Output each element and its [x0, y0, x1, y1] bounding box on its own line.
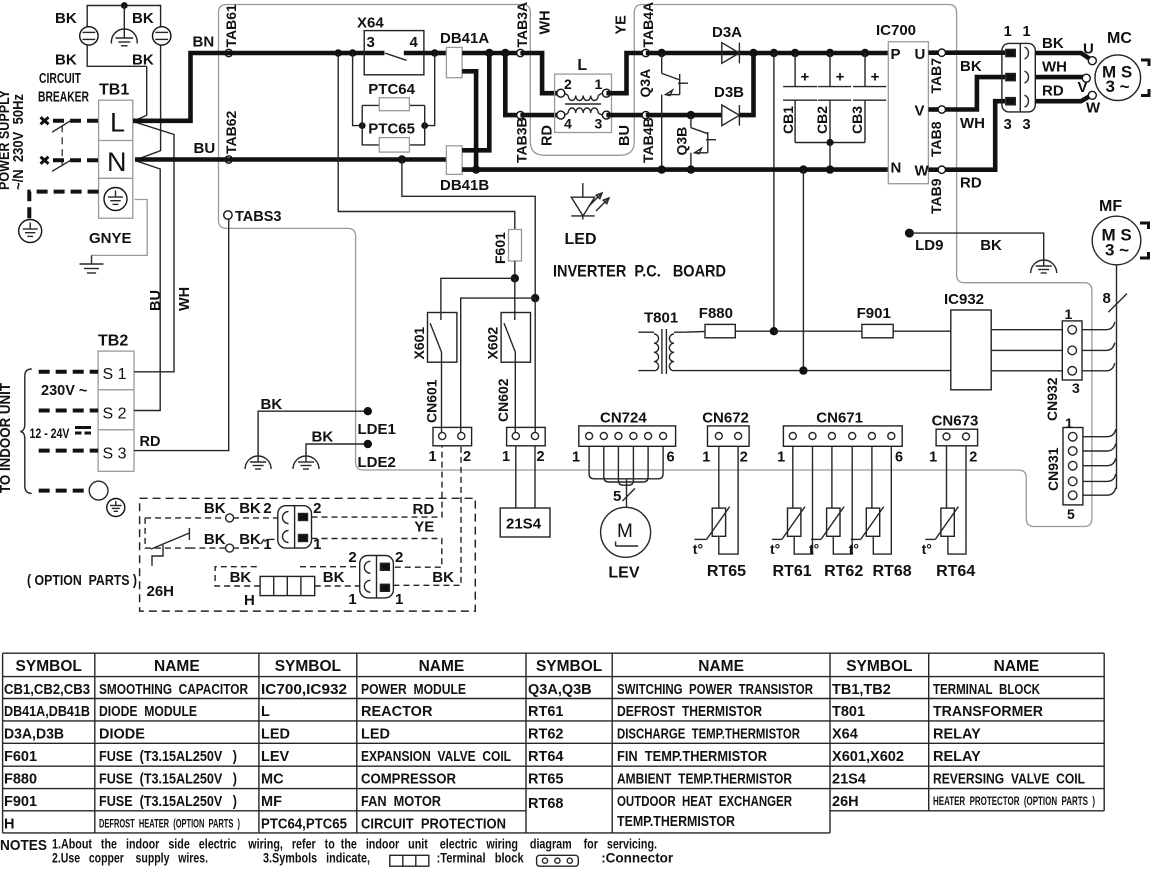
- svg-text:HEATER PROTECTOR (OPTION PA: HEATER PROTECTOR (OPTION PARTS ): [933, 796, 1095, 808]
- svg-text:PTC64,PTC65: PTC64,PTC65: [261, 816, 347, 832]
- wire X64 to DB41A: [435, 51, 447, 56]
- wire filter to L: [134, 66, 147, 121]
- svg-text:LED: LED: [565, 231, 597, 248]
- svg-text:X601: X601: [411, 327, 427, 360]
- svg-text:BK: BK: [261, 396, 283, 413]
- svg-text:CN671: CN671: [816, 410, 863, 427]
- svg-text:SYMBOL: SYMBOL: [16, 658, 82, 675]
- wire CN672 pin1 to RT65: [718, 446, 720, 508]
- wire PTC left branch: [353, 53, 363, 126]
- svg-text:TB2: TB2: [98, 333, 128, 350]
- LEV underline: [616, 542, 639, 547]
- svg-text:BU: BU: [148, 290, 164, 311]
- svg-text:CN673: CN673: [932, 413, 979, 430]
- wire RT61 loop to pin2: [794, 446, 812, 554]
- LD9 dot: [905, 229, 914, 238]
- option connector B: [360, 556, 394, 598]
- wire F601 to node: [514, 261, 516, 278]
- junction dot BU: [398, 155, 406, 163]
- svg-text:DEFROST THERMISTOR: DEFROST THERMISTOR: [617, 704, 762, 720]
- svg-text:RT68: RT68: [873, 563, 912, 580]
- transistor Q3B: [690, 115, 692, 128]
- feed X mark N: [41, 157, 49, 164]
- wire N rail right: [640, 167, 888, 172]
- svg-text:BK: BK: [980, 237, 1002, 254]
- svg-text:X64: X64: [832, 726, 858, 742]
- svg-text:TAB7: TAB7: [928, 58, 944, 94]
- svg-text:TAB3B: TAB3B: [514, 117, 530, 163]
- svg-text:MC: MC: [261, 772, 284, 788]
- svg-text:+: +: [836, 69, 845, 86]
- svg-text:IC700: IC700: [876, 22, 916, 39]
- svg-text:2: 2: [564, 76, 572, 92]
- svg-text:BN: BN: [193, 34, 215, 51]
- svg-text:CIRCUIT: CIRCUIT: [39, 71, 81, 87]
- junction dot Q3A collector: [658, 49, 666, 57]
- wire RT65 loop to pin2: [719, 446, 738, 554]
- svg-text:X601,X602: X601,X602: [832, 749, 904, 765]
- wire PTC right branch: [425, 53, 435, 126]
- svg-text:( OPTION PARTS ): ( OPTION PARTS ): [27, 572, 137, 589]
- wire BU node to CN601 pin2: [461, 298, 536, 432]
- svg-text:RD: RD: [413, 501, 435, 518]
- CN724 wire bundle: [589, 446, 626, 479]
- svg-text:N: N: [107, 147, 127, 177]
- diode module DB41A: [446, 47, 462, 77]
- svg-text:CB3: CB3: [849, 106, 865, 134]
- svg-text:TAB8: TAB8: [928, 121, 944, 157]
- relay X64 box: [364, 31, 424, 75]
- svg-text:BK: BK: [432, 569, 454, 586]
- terminal block legend symbol: [390, 855, 429, 866]
- svg-text:T801: T801: [832, 704, 865, 720]
- junction dot P feed down: [770, 49, 778, 57]
- reactor winding lower: [568, 108, 598, 113]
- svg-text:S 2: S 2: [103, 406, 127, 423]
- svg-text:BK: BK: [323, 569, 345, 586]
- connector CN673: [936, 429, 978, 446]
- svg-text:DIODE MODULE: DIODE MODULE: [99, 704, 197, 720]
- power supply earth terminal: [19, 220, 42, 243]
- svg-text:230V ~: 230V ~: [41, 383, 87, 399]
- svg-text:TAB9: TAB9: [928, 178, 944, 214]
- wire TAB3A to reactor pin2: [520, 53, 557, 93]
- junction dot TAB3B riser: [501, 49, 509, 57]
- dashed wire to S2: [39, 409, 98, 413]
- thermistor RT65: [712, 508, 725, 536]
- reactor pin1 circle: [602, 89, 610, 97]
- svg-text:12 - 24V: 12 - 24V: [30, 426, 70, 441]
- circle contact upper: [226, 514, 234, 522]
- svg-text:3: 3: [1004, 117, 1012, 133]
- svg-text:F901: F901: [857, 305, 891, 322]
- heater H element: [260, 576, 315, 595]
- junction dot BU node: [531, 294, 539, 302]
- svg-text:3: 3: [1072, 380, 1080, 396]
- breaker mechanical link dashed: [61, 125, 63, 166]
- svg-text:Q3B: Q3B: [674, 127, 690, 156]
- svg-text:21S4: 21S4: [832, 772, 866, 788]
- svg-text:DB41A: DB41A: [440, 30, 489, 47]
- wire filter to N: [135, 66, 161, 160]
- wire T801 top to F880: [684, 331, 705, 334]
- connector CN724: [579, 426, 676, 446]
- svg-text:Q3A,Q3B: Q3A,Q3B: [528, 682, 592, 698]
- power supply dashed feed L: [53, 119, 99, 123]
- svg-text:6: 6: [895, 450, 903, 466]
- junction dot CB1: [791, 49, 799, 57]
- svg-text::Terminal block: :Terminal block: [437, 851, 524, 866]
- svg-text:SWITCHING POWER TRANSISTOR: SWITCHING POWER TRANSISTOR: [617, 682, 813, 698]
- junction dot F880 node: [770, 327, 778, 335]
- svg-text:CN672: CN672: [702, 410, 749, 427]
- TB1 earth terminal: [104, 188, 127, 211]
- terminal TAB4A: [642, 49, 649, 56]
- wire MC V lead: [1035, 75, 1084, 80]
- junction dot BN 1: [334, 49, 342, 57]
- svg-text:4: 4: [564, 116, 572, 132]
- wire node to X602: [514, 278, 516, 312]
- wire BU node to CN602 pin2: [534, 298, 536, 432]
- svg-text:1: 1: [777, 450, 785, 466]
- svg-text:3: 3: [1023, 117, 1031, 133]
- thermistor RT68: [866, 508, 879, 536]
- power module IC932: [951, 310, 991, 390]
- svg-text:F880: F880: [4, 772, 37, 788]
- reversing valve coil 21S4: [500, 508, 550, 537]
- LED symbol: [582, 183, 584, 197]
- wire X601 to CN601 pin1: [441, 352, 443, 432]
- terminal TAB4B: [642, 111, 649, 118]
- wire CN602 pin2 to 21S4: [534, 446, 536, 508]
- junction dot PTC left: [359, 122, 366, 129]
- svg-text:RT64: RT64: [528, 749, 563, 765]
- svg-text:FAN MOTOR: FAN MOTOR: [361, 794, 441, 810]
- dome ground LD9: [1031, 260, 1057, 273]
- terminal block TB1: [99, 100, 133, 218]
- reactor winding upper: [568, 96, 598, 101]
- svg-text:FUSE (T3.15AL250V ): FUSE (T3.15AL250V ): [99, 772, 237, 788]
- svg-text::Connector: :Connector: [601, 851, 674, 866]
- fuse F901: [862, 324, 893, 337]
- svg-text:SMOOTHING CAPACITOR: SMOOTHING CAPACITOR: [99, 682, 248, 698]
- reactor pin4 circle: [557, 111, 565, 119]
- svg-text:2: 2: [740, 450, 748, 466]
- svg-text:W: W: [915, 163, 930, 180]
- svg-text:t°: t°: [770, 541, 780, 557]
- svg-text:TRANSFORMER: TRANSFORMER: [933, 704, 1044, 720]
- PTC parallel rails: [362, 105, 425, 144]
- svg-text:1: 1: [1004, 24, 1012, 40]
- indoor earth symbol: [107, 499, 125, 517]
- svg-text:4: 4: [410, 34, 419, 51]
- svg-text:3: 3: [367, 34, 375, 51]
- svg-text:BK: BK: [960, 58, 982, 75]
- junction dot F601 node: [511, 274, 519, 282]
- reactor L box: [555, 74, 612, 132]
- wire V WH to MC connector: [946, 77, 1006, 109]
- bracket MC: [1141, 60, 1149, 96]
- wire node to F901: [774, 330, 862, 332]
- wire reactor pin3 to TAB4B: [606, 113, 645, 118]
- wire RT68 loop to pin6: [873, 446, 891, 554]
- svg-text:RD: RD: [1042, 83, 1064, 100]
- wire IC932 out1: [991, 329, 1062, 331]
- svg-text:F601: F601: [4, 749, 37, 765]
- svg-text:FUSE (T3.15AL250V ): FUSE (T3.15AL250V ): [99, 749, 237, 765]
- svg-text:U: U: [915, 46, 926, 63]
- wire BU tap down: [402, 160, 535, 299]
- svg-text:TO INDOOR UNIT: TO INDOOR UNIT: [0, 383, 14, 493]
- terminal dot LDE1: [364, 407, 372, 415]
- terminal TAB62: [225, 156, 232, 163]
- filter ground symbol: [123, 6, 125, 39]
- svg-text:RD: RD: [540, 125, 556, 146]
- svg-text:1: 1: [263, 536, 271, 553]
- svg-text:t°: t°: [809, 541, 819, 557]
- dashed heater leads: [215, 567, 260, 586]
- svg-text:MF: MF: [261, 794, 282, 810]
- svg-text:COMPRESSOR: COMPRESSOR: [361, 772, 456, 788]
- svg-text:TB1,TB2: TB1,TB2: [832, 682, 891, 698]
- svg-text:~/N 230V 50Hz: ~/N 230V 50Hz: [11, 94, 27, 190]
- junction dot cap N: [826, 165, 834, 173]
- wire CN673 pin1 to RT64: [946, 446, 948, 508]
- svg-text:SYMBOL: SYMBOL: [536, 658, 602, 675]
- svg-text:S 3: S 3: [103, 446, 127, 463]
- option connector A: [278, 506, 312, 548]
- wire S2 to BU riser: [134, 161, 160, 411]
- dashed wire connB pin1 to CN601 riser YE: [393, 446, 461, 585]
- svg-text:+: +: [801, 69, 810, 86]
- svg-text:2: 2: [348, 549, 356, 566]
- wire DB41B upper right to top rail: [462, 53, 489, 150]
- svg-text:LD9: LD9: [915, 237, 943, 254]
- power module IC700: [888, 42, 928, 184]
- svg-text:NAME: NAME: [154, 658, 200, 675]
- wire S3 to TABS3 RD: [134, 220, 229, 451]
- svg-text:5: 5: [613, 488, 621, 505]
- svg-text:BK: BK: [204, 531, 226, 548]
- diode D3A: [722, 43, 740, 64]
- junction dot N feed down: [799, 165, 807, 173]
- svg-text:TAB61: TAB61: [223, 4, 239, 48]
- svg-text:CN931: CN931: [1045, 447, 1061, 491]
- thermistor RT64: [941, 508, 954, 536]
- wire X602 to CN602 pin1: [514, 352, 516, 432]
- svg-text:CIRCUIT PROTECTION: CIRCUIT PROTECTION: [361, 816, 506, 832]
- junction dot CB2: [826, 49, 834, 57]
- wire CN932 pin2 to cable: [1082, 343, 1115, 351]
- svg-text:RD: RD: [140, 434, 161, 450]
- svg-text:1: 1: [929, 450, 937, 466]
- svg-text:EXPANSION VALVE COIL: EXPANSION VALVE COIL: [361, 749, 511, 765]
- svg-text:1.About the indoor side: 1.About the indoor side electric wiring,…: [52, 837, 657, 852]
- svg-text:2: 2: [313, 500, 321, 517]
- junction dot cap bus: [826, 139, 833, 146]
- terminal block TB2: [98, 351, 134, 471]
- resistor PTC64: [379, 98, 409, 111]
- motor MC terminal W: [1088, 91, 1096, 99]
- svg-text:2: 2: [537, 449, 545, 465]
- svg-text:TAB3A: TAB3A: [514, 2, 530, 48]
- svg-text:L: L: [261, 704, 270, 720]
- svg-text:H: H: [4, 816, 14, 832]
- wire bundle to LEV: [626, 479, 628, 508]
- svg-text:2: 2: [969, 450, 977, 466]
- svg-text:BK: BK: [55, 52, 77, 69]
- svg-text:1: 1: [702, 450, 710, 466]
- svg-text:SYMBOL: SYMBOL: [275, 658, 341, 675]
- dashed wire to S3: [39, 449, 98, 453]
- 12-24V dc dashes: [75, 426, 91, 429]
- fuse F880: [705, 324, 735, 337]
- expansion valve motor LEV: [601, 507, 651, 557]
- wire DB41A top out: [462, 51, 489, 56]
- svg-text:WH: WH: [177, 287, 193, 311]
- svg-text:TABS3: TABS3: [235, 209, 281, 225]
- svg-text:LDE2: LDE2: [358, 454, 396, 471]
- svg-text:2: 2: [263, 500, 271, 517]
- svg-text:6: 6: [667, 450, 675, 466]
- connector CN602: [507, 427, 546, 445]
- junction dot top rail DB41B riser: [485, 49, 493, 57]
- svg-text:PTC65: PTC65: [368, 121, 415, 138]
- terminal TAB61: [225, 49, 232, 56]
- svg-text:POWER MODULE: POWER MODULE: [361, 682, 466, 698]
- junction dot X64 out: [431, 49, 439, 57]
- wire top rail to TAB3A: [489, 51, 520, 56]
- svg-text:1: 1: [1023, 24, 1031, 40]
- wire CN932 pin1 to cable: [1082, 322, 1115, 330]
- svg-text:D3A,D3B: D3A,D3B: [4, 726, 64, 742]
- wires CN931 to cable: [1083, 429, 1116, 437]
- motor MC terminal V: [1082, 74, 1090, 82]
- svg-text:LED: LED: [261, 726, 290, 742]
- svg-text:Q3A: Q3A: [637, 69, 653, 98]
- wire T801 bottom to IC932: [684, 370, 951, 372]
- svg-text:1: 1: [1065, 415, 1073, 431]
- wire RT64 loop to pin2: [948, 446, 966, 554]
- svg-text:DISCHARGE TEMP.THERMISTOR: DISCHARGE TEMP.THERMISTOR: [617, 726, 800, 742]
- svg-text:D3B: D3B: [714, 84, 744, 101]
- svg-text:P: P: [891, 46, 901, 63]
- dashed wire connA pin2 to CN601 riser RD: [312, 446, 443, 517]
- breaker contact N: [52, 160, 71, 172]
- terminal TAB9 W: [928, 167, 938, 172]
- wire F901 to IC932: [893, 330, 951, 332]
- capacitor CB2: [829, 53, 831, 86]
- svg-text:RT61: RT61: [773, 563, 812, 580]
- svg-text:1: 1: [429, 449, 437, 465]
- svg-text:INVERTER P.C. BOARD: INVERTER P.C. BOARD: [553, 263, 726, 281]
- svg-text:NOTES: NOTES: [0, 837, 47, 854]
- svg-text:3: 3: [595, 116, 603, 132]
- svg-text:3.Symbols indicate,: 3.Symbols indicate,: [263, 851, 370, 866]
- circle contact lower: [226, 544, 234, 552]
- svg-text:8: 8: [1103, 290, 1111, 307]
- symbol table: [3, 653, 1105, 833]
- svg-text:LEV: LEV: [608, 565, 639, 582]
- svg-text:BK: BK: [312, 429, 334, 446]
- wire S1 to WH riser: [134, 122, 174, 372]
- connector CN931: [1063, 428, 1083, 505]
- junction dot Q3A emitter N: [658, 165, 666, 173]
- svg-text:U: U: [1083, 41, 1094, 58]
- svg-text:BK: BK: [1042, 35, 1064, 52]
- thermistor RT62: [827, 508, 840, 536]
- terminal TAB3B: [517, 111, 524, 118]
- wire W RD to MC connector: [946, 101, 1006, 170]
- svg-text:L: L: [577, 57, 587, 74]
- svg-text:H: H: [244, 592, 255, 609]
- svg-text:YE: YE: [614, 15, 630, 35]
- svg-text:L: L: [110, 108, 125, 138]
- terminal TAB3A: [517, 49, 524, 56]
- svg-text:DIODE: DIODE: [99, 726, 145, 742]
- svg-text:2: 2: [395, 549, 403, 566]
- svg-text:1: 1: [395, 591, 403, 608]
- terminal TAB7 U: [928, 50, 938, 55]
- connector CN671: [783, 426, 902, 446]
- svg-text:TAB4B: TAB4B: [640, 117, 656, 163]
- wire CN671 pin1 to RT61: [792, 446, 794, 508]
- reactor core line: [565, 103, 601, 105]
- MC connector housing: [1002, 43, 1035, 112]
- wire X64 out: [404, 51, 435, 56]
- inverter P.C. board outline: [219, 5, 1092, 527]
- svg-text:26H: 26H: [832, 794, 859, 810]
- noise filter box: [87, 6, 160, 67]
- svg-text:RT68: RT68: [528, 796, 563, 812]
- svg-text:t°: t°: [693, 541, 703, 557]
- compressor motor MC circle: [1095, 55, 1141, 101]
- svg-text:BREAKER: BREAKER: [38, 90, 89, 106]
- indoor earth open circle: [89, 481, 108, 500]
- svg-text:DEFROST HEATER (OPTION PART: DEFROST HEATER (OPTION PARTS ): [99, 818, 240, 830]
- wire BU thick TAB62: [135, 157, 446, 162]
- svg-text:1: 1: [572, 450, 580, 466]
- svg-text:CN601: CN601: [424, 379, 440, 423]
- connector legend symbol: [537, 855, 579, 866]
- wire IC932 out3: [991, 370, 1062, 372]
- wire U BK to MC connector: [946, 50, 1006, 55]
- wire into X64 switch: [353, 51, 385, 56]
- svg-text:LED: LED: [361, 726, 390, 742]
- junction dot Q3B emitter N: [687, 165, 695, 173]
- svg-text:W: W: [1086, 100, 1101, 117]
- svg-text:+: +: [871, 69, 880, 86]
- diode module DB41B: [446, 146, 462, 175]
- wire TAB3B branch: [505, 53, 516, 115]
- junction dot BN 2: [349, 49, 357, 57]
- terminal TAB8 V: [928, 107, 938, 112]
- svg-text:WH: WH: [960, 115, 985, 132]
- junction dot D3B riser: [749, 49, 757, 57]
- junction dot DB41A-N rail: [472, 165, 480, 173]
- wire cap bus to N rail: [829, 143, 831, 170]
- relay X602 box: [501, 313, 530, 363]
- bracket MF: [1140, 223, 1149, 258]
- heater switch 26H: [151, 533, 190, 549]
- connector CN672: [708, 426, 750, 446]
- fan motor MF circle: [1092, 216, 1141, 265]
- wire BK to LDE1: [258, 411, 368, 454]
- svg-text:NAME: NAME: [994, 658, 1040, 675]
- wire F880 to node: [735, 330, 774, 332]
- svg-text:WH: WH: [1042, 59, 1067, 76]
- svg-text:REACTOR: REACTOR: [361, 704, 433, 720]
